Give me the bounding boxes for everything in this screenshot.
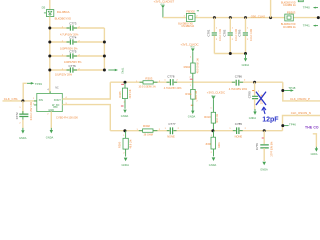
svg-text:C779: C779	[255, 143, 259, 150]
svg-text:2: 2	[211, 152, 213, 154]
svg-text:GNDA: GNDA	[122, 163, 130, 167]
svg-text:GNDA: GNDA	[46, 135, 54, 139]
svg-text:1: 1	[190, 57, 192, 59]
ground GNDA under R311	[188, 111, 196, 119]
svg-text:C780: C780	[247, 91, 251, 98]
svg-text:0.1UF 10%: 0.1UF 10%	[219, 28, 222, 41]
svg-text:49.9 1%: 49.9 1%	[130, 139, 133, 149]
capacitor C780 (to ground)	[247, 82, 263, 109]
svg-text:D5: D5	[42, 6, 46, 10]
svg-text:TP48: TP48	[288, 86, 295, 90]
capacitor C772	[15, 101, 33, 124]
resistor R303	[136, 77, 161, 89]
wire: right rail of decoupling bank	[103, 28, 105, 70]
power +3V3_CLKDIST	[154, 0, 175, 18]
node: left rail row 3	[48, 55, 51, 58]
capacitor C773	[60, 21, 80, 36]
svg-text:1: 1	[229, 128, 231, 130]
svg-text:R302: R302	[143, 124, 150, 128]
svg-text:C783: C783	[238, 29, 242, 36]
wire: riser to top edge	[270, 0, 272, 18]
node TP48 tap	[281, 89, 284, 92]
svg-text:2: 2	[232, 39, 234, 41]
svg-text:TP41: TP41	[303, 24, 310, 28]
svg-text:FB303: FB303	[287, 11, 296, 15]
test point stub at row 4 right	[108, 68, 124, 74]
wire: upper bus to CLK_OSCIN_P	[283, 82, 320, 101]
svg-text:VDD: VDD	[190, 47, 195, 49]
svg-text:49.9 OHM 1%: 49.9 OHM 1%	[196, 57, 199, 73]
node: left rail row 1	[48, 27, 51, 30]
svg-text:C785: C785	[235, 122, 243, 126]
wire: Y1 pin4 to upper bus	[62, 82, 110, 99]
ground GNDA under Y1	[46, 128, 54, 139]
svg-text:XOUT: XOUT	[54, 99, 61, 102]
node: left rail row 4	[48, 69, 51, 72]
svg-text:GNDA: GNDA	[188, 115, 196, 119]
ferrite bead FB303	[281, 11, 296, 29]
svg-text:C786: C786	[235, 74, 243, 78]
wire: upper bus	[110, 81, 282, 83]
svg-text:TP42: TP42	[121, 68, 125, 74]
wire: down to C772	[22, 101, 24, 114]
node on top bus at C781	[213, 16, 216, 19]
svg-text:49.9 1%: 49.9 1%	[129, 89, 132, 99]
svg-text:C772: C772	[15, 112, 19, 119]
ground GNDA for cap rail	[242, 54, 250, 68]
capacitor C775	[62, 50, 82, 64]
svg-text:C778: C778	[167, 75, 175, 79]
resistor R300	[117, 131, 132, 157]
svg-text:4.7UF/25V 20%: 4.7UF/25V 20%	[164, 87, 182, 90]
node TP46 tap	[281, 124, 284, 127]
wire: left rail of decoupling bank	[49, 17, 51, 94]
svg-text:1: 1	[123, 135, 125, 137]
marker: pink flag near R305 bottom	[121, 105, 124, 107]
svg-text:FB302: FB302	[186, 9, 195, 13]
node: left rail row 2	[48, 41, 51, 44]
svg-text:CN-9BM 2A: CN-9BM 2A	[283, 4, 296, 7]
annotation: blue arrow	[264, 109, 265, 114]
svg-text:NC: NC	[55, 87, 59, 90]
svg-text:TP46: TP46	[289, 122, 296, 126]
svg-text:1: 1	[19, 107, 21, 109]
capacitor C786 (series)	[229, 74, 248, 91]
svg-text:GNDA: GNDA	[121, 114, 129, 118]
test point TP40	[303, 6, 318, 10]
wire: supply rail into D5 from top edge	[49, 0, 51, 10]
wire: lower bus to CLK_OSCIN_N	[283, 116, 320, 131]
svg-text:1: 1	[216, 28, 218, 30]
annotation: blue X cross-out	[256, 92, 265, 105]
resistor R304	[184, 57, 200, 83]
svg-text:1: 1	[190, 85, 192, 87]
svg-text:THE CO: THE CO	[305, 126, 319, 130]
svg-text:330: 330	[205, 142, 210, 146]
node on lower bus at R300	[123, 129, 126, 132]
svg-text:DH-9BCA: DH-9BCA	[57, 10, 70, 14]
svg-text:R304: R304	[184, 65, 191, 69]
resistor R305	[118, 83, 132, 109]
capacitor C782	[223, 18, 238, 54]
node on lower bus at R310/R301	[211, 129, 214, 132]
marker: pink flag near R305 top	[121, 83, 124, 85]
wire: cap row 1	[50, 27, 105, 29]
svg-text:C781: C781	[207, 29, 211, 36]
svg-text:2: 2	[123, 153, 125, 155]
svg-text:O50_CLK0: O50_CLK0	[251, 14, 266, 18]
ferrite bead FB302	[178, 9, 199, 28]
svg-text:CLK_OSCIN_N: CLK_OSCIN_N	[291, 111, 311, 115]
svg-text:12pF: 12pF	[262, 116, 279, 123]
svg-text:1: 1	[164, 80, 166, 82]
svg-text:2: 2	[176, 80, 178, 82]
svg-text:2: 2	[216, 39, 218, 41]
svg-text:2: 2	[178, 128, 180, 130]
svg-text:1: 1	[165, 128, 167, 130]
svg-text:2: 2	[47, 113, 49, 115]
svg-text:XIN: XIN	[39, 99, 43, 102]
node on top bus at C783	[244, 16, 247, 19]
wire: top bus	[163, 17, 320, 19]
svg-text:2: 2	[245, 128, 247, 130]
svg-text:TP40: TP40	[303, 6, 310, 10]
oscillator Y1	[33, 87, 67, 116]
resistor R310	[204, 108, 219, 131]
ground GNDA under R301	[209, 157, 217, 167]
wire: cap row 2	[50, 41, 105, 43]
svg-text:C773: C773	[69, 21, 77, 25]
capacitor C778 (series)	[164, 75, 182, 91]
svg-text:R303: R303	[145, 77, 152, 81]
wire: cap ground rail	[214, 53, 245, 55]
svg-text:TP49: TP49	[35, 82, 43, 86]
svg-text:2: 2	[189, 77, 191, 79]
svg-text:10.0 0.063W 1%: 10.0 0.063W 1%	[139, 87, 156, 89]
svg-text:C777: C777	[168, 122, 176, 126]
node on ground rail right	[244, 52, 247, 55]
ferrite bead at top edge (cut off)	[281, 0, 303, 7]
capacitor C777 (series, lower bus)	[165, 122, 180, 138]
svg-text:R301: R301	[218, 142, 221, 148]
svg-text:CYBD-FH-100.000: CYBD-FH-100.000	[56, 116, 78, 120]
test point TP41	[303, 24, 318, 28]
node on lower bus at C779	[263, 129, 266, 132]
svg-text:CN-9BM 2A: CN-9BM 2A	[283, 26, 296, 29]
svg-text:10UF/25V 20%: 10UF/25V 20%	[55, 74, 73, 77]
svg-text:+3V3_CLKDIST: +3V3_CLKDIST	[154, 0, 175, 4]
svg-text:GNDA: GNDA	[242, 63, 250, 67]
svg-text:1: 1	[210, 108, 212, 110]
ground GNDA under C780	[249, 109, 257, 120]
svg-text:36 OHM: 36 OHM	[144, 134, 153, 137]
svg-text:1: 1	[232, 28, 234, 30]
svg-text:27PF 50V 5%: 27PF 50V 5%	[271, 141, 274, 157]
node: right rail row 2	[103, 41, 106, 44]
svg-text:2: 2	[196, 100, 198, 102]
capacitor C779 (to ground)	[255, 131, 273, 161]
capacitor C783	[238, 18, 253, 54]
test point TP49 branch	[23, 82, 42, 101]
svg-text:GNDA: GNDA	[19, 136, 27, 140]
wire: lower bus	[110, 130, 282, 132]
wire: C772 to ground	[22, 120, 24, 129]
wire: Y1 pin3 to lower bus	[62, 105, 110, 131]
capacitor C776	[55, 64, 80, 77]
test point TP48	[284, 86, 296, 92]
capacitor C774	[60, 36, 80, 51]
svg-text:2: 2	[258, 91, 260, 93]
ground GNDA under C772	[19, 128, 27, 140]
resistor R311	[185, 82, 198, 111]
power +3V3_CLKDC at R310	[207, 91, 225, 113]
node: CLK_CH1 junction	[21, 99, 24, 102]
ground GNDA bottom right	[311, 147, 318, 156]
svg-text:NONE: NONE	[235, 135, 243, 139]
svg-text:CN-9BM 2A: CN-9BM 2A	[181, 25, 194, 28]
svg-text:0.1UF 10%: 0.1UF 10%	[250, 28, 253, 41]
svg-text:R305: R305	[118, 91, 122, 98]
svg-text:2: 2	[19, 123, 21, 125]
svg-text:2: 2	[247, 39, 249, 41]
ground GNDA under R300	[122, 158, 130, 167]
node: right rail row 4	[103, 69, 106, 72]
resistor R301	[205, 131, 220, 157]
svg-text:C774: C774	[69, 36, 77, 40]
svg-text:1: 1	[247, 28, 249, 30]
resistor R302	[137, 124, 161, 136]
svg-text:BLKDBGYXD: BLKDBGYXD	[55, 17, 71, 21]
capacitor C785 (series, lower bus)	[229, 122, 246, 139]
capacitor C781	[207, 18, 222, 54]
wire: Y1 GND pin to ground	[50, 112, 52, 129]
svg-text:+3V3_CLKDC: +3V3_CLKDC	[207, 91, 225, 95]
svg-text:W_XO: W_XO	[52, 104, 59, 107]
node on upper bus at C780	[253, 81, 256, 84]
power +3V3_CLKDC at R304	[180, 42, 198, 63]
wire: cap row 4	[50, 69, 105, 71]
svg-text:GNDA: GNDA	[260, 167, 268, 171]
ground GNDA under C779	[260, 162, 268, 172]
svg-text:C775: C775	[69, 50, 77, 54]
wire: bottom right fragment	[313, 134, 317, 147]
svg-text:R311: R311	[185, 92, 192, 96]
wire: cap row 3	[50, 55, 105, 57]
svg-text:GNDA: GNDA	[249, 117, 257, 120]
svg-text:2: 2	[244, 80, 246, 82]
diode D5	[42, 6, 54, 17]
svg-text:49.9 1%: 49.9 1%	[216, 113, 219, 123]
node: right rail row 3	[103, 55, 106, 58]
svg-text:C776: C776	[69, 64, 77, 68]
svg-text:R310: R310	[204, 115, 211, 119]
node on ground rail	[229, 52, 232, 55]
marker: pink flag at R304/R311 crossing	[190, 78, 193, 80]
svg-text:4.7UF/25V 20%: 4.7UF/25V 20%	[229, 87, 248, 91]
svg-text:CLK_OSCIN_P: CLK_OSCIN_P	[290, 97, 310, 101]
svg-text:R300: R300	[117, 141, 121, 148]
ground GNDA under R305	[121, 110, 129, 119]
svg-text:GNDA: GNDA	[209, 163, 217, 167]
wire: CLK_CH1 input	[3, 100, 37, 102]
svg-text:NONE: NONE	[167, 135, 175, 139]
node on upper bus at R305	[124, 81, 127, 84]
svg-text:49.9 1%: 49.9 1%	[195, 90, 198, 100]
svg-text:GNDA: GNDA	[311, 153, 318, 156]
svg-text:1: 1	[33, 98, 35, 100]
node on top bus at C782	[229, 16, 232, 19]
node on top bus at riser	[269, 16, 272, 19]
test point TP46	[284, 122, 296, 126]
node on top bus right edge	[317, 16, 320, 19]
svg-text:C782: C782	[223, 29, 227, 36]
